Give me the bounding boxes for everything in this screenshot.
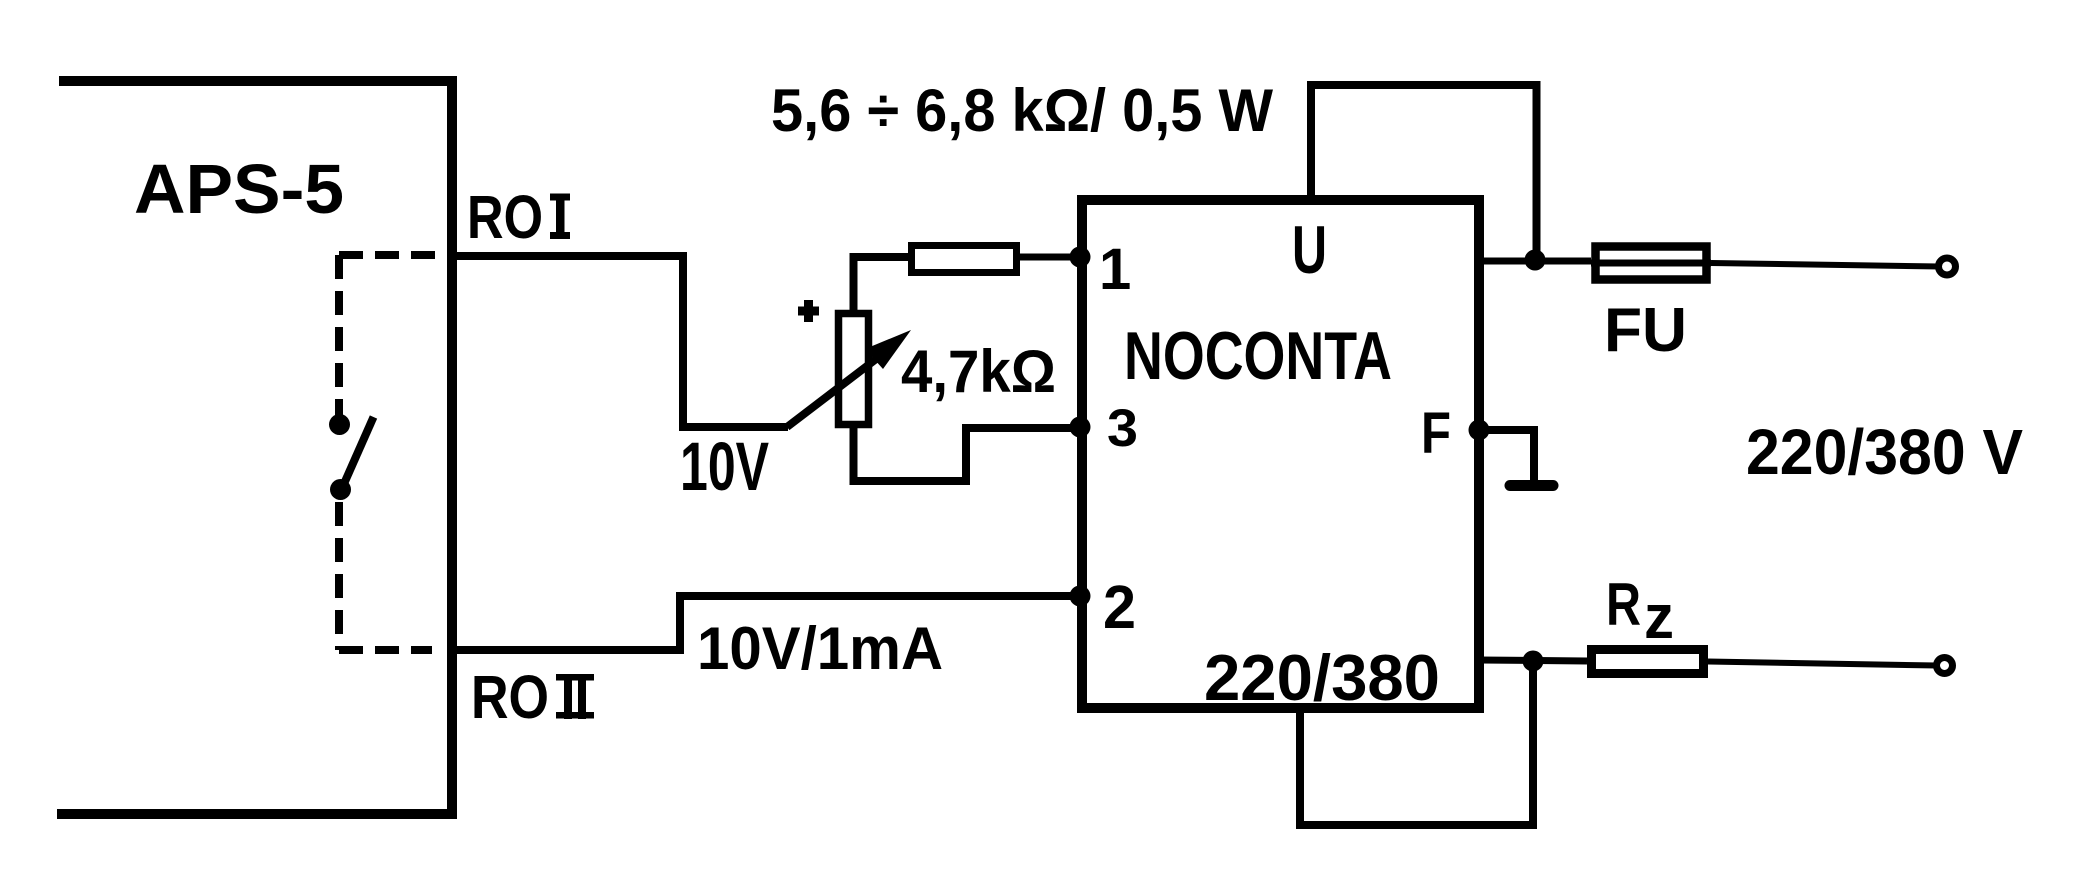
wire Rz to lower terminal: [1708, 662, 1937, 666]
wire U pin to fuse: [1479, 258, 1591, 265]
device APS-5 partial enclosure: [57, 81, 452, 814]
wire top feedback loop: [1311, 85, 1537, 261]
svg-text:10V/1mA: 10V/1mA: [697, 615, 943, 682]
polarity plus: [798, 300, 819, 322]
junction pin 2: [1070, 586, 1091, 607]
svg-text:z: z: [1644, 583, 1674, 652]
dashed link top side: [339, 251, 452, 259]
svg-text:3: 3: [1107, 399, 1138, 458]
wire F to ground: [1479, 430, 1534, 482]
terminal lower: [1937, 658, 1953, 674]
wire pot top to resistor: [854, 257, 909, 312]
svg-text:5,6 ÷ 6,8 kΩ/ 0,5 W: 5,6 ÷ 6,8 kΩ/ 0,5 W: [771, 77, 1273, 144]
switch contact: [329, 414, 374, 500]
svg-text:1: 1: [1099, 237, 1131, 302]
wire resistor to pin 1: [1020, 254, 1082, 261]
junction U loop: [1525, 250, 1546, 271]
label Rz: [1606, 571, 1674, 652]
wire bottom loop 220/380: [1300, 661, 1533, 825]
wire ROI: [452, 256, 788, 427]
wire ROII: [452, 596, 1077, 650]
svg-text:10V: 10V: [680, 428, 769, 505]
svg-text:APS-5: APS-5: [134, 150, 344, 228]
resistor Rz: [1592, 650, 1704, 674]
wire pot bottom to pin 3: [854, 425, 1083, 481]
svg-text:2: 2: [1103, 573, 1136, 641]
node label ROII: [471, 663, 594, 731]
ground chassis bar: [1510, 480, 1553, 491]
potentiometer wiper arrow: [787, 330, 911, 427]
terminal upper: [1939, 258, 1956, 275]
dashed link left side upper: [335, 255, 343, 415]
svg-text:F: F: [1421, 401, 1451, 466]
svg-text:NOCONTA: NOCONTA: [1124, 318, 1392, 394]
svg-text:FU: FU: [1604, 296, 1687, 365]
junction pin F: [1469, 420, 1490, 441]
dashed link left side lower: [335, 502, 343, 650]
svg-text:220/380 V: 220/380 V: [1746, 416, 2023, 488]
potentiometer 4,7k body: [839, 314, 869, 425]
IC NOCONTA box: [1082, 200, 1479, 708]
svg-text:U: U: [1292, 212, 1327, 288]
svg-text:220/380: 220/380: [1204, 641, 1440, 714]
svg-text:4,7kΩ: 4,7kΩ: [901, 338, 1056, 405]
svg-text:RO: RO: [467, 183, 543, 251]
junction pin 3: [1070, 417, 1091, 438]
junction Rz loop: [1523, 651, 1544, 672]
fuse FU: [1591, 247, 1711, 280]
wire fuse to upper terminal: [1711, 263, 1940, 267]
dashed link bottom side: [339, 646, 432, 654]
wire box to Rz: [1479, 660, 1587, 661]
resistor 5,6-6,8k series: [912, 246, 1017, 273]
junction pin 1: [1070, 247, 1091, 268]
svg-text:R: R: [1606, 571, 1641, 638]
node label ROI: [467, 183, 570, 251]
svg-text:RO: RO: [471, 663, 549, 731]
